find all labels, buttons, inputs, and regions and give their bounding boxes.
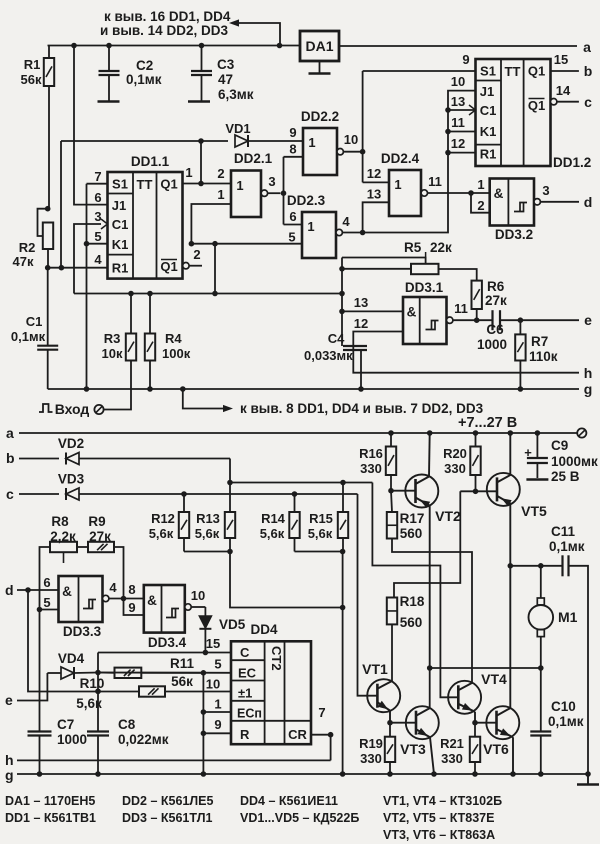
label DD3.3 amp <box>62 584 72 599</box>
svg-text:e: e <box>584 312 592 328</box>
wire R14R15 down to g <box>340 552 346 777</box>
pin 8 label <box>128 582 135 597</box>
label DD4 C <box>240 645 250 660</box>
svg-text:6: 6 <box>289 209 296 224</box>
svg-text:&: & <box>147 593 157 608</box>
svg-text:R5: R5 <box>404 240 422 255</box>
ground symbol right <box>577 774 599 785</box>
gate DD3.2 output <box>534 199 579 205</box>
label DA1 <box>305 38 333 54</box>
svg-text:5,6к: 5,6к <box>195 526 220 541</box>
wire DD2.2 pin8 <box>284 156 304 158</box>
svg-text:b: b <box>584 63 593 79</box>
svg-text:e: e <box>5 692 13 708</box>
resistor R13 <box>225 512 235 552</box>
pin 1 label <box>477 177 484 192</box>
svg-text:d: d <box>5 582 14 598</box>
pin 11 label <box>454 301 468 316</box>
wire VD4 junction down <box>95 653 101 732</box>
label VT3 <box>400 741 426 757</box>
pin 2 label <box>217 166 224 181</box>
label C6 <box>486 322 504 337</box>
svg-text:Q1: Q1 <box>528 98 545 113</box>
svg-text:12: 12 <box>451 136 465 151</box>
svg-text:R1: R1 <box>112 261 129 276</box>
resistor R2 trimmer <box>38 206 54 268</box>
wire arrow branch VDD <box>229 19 282 48</box>
label DD1.2 C1 <box>480 103 497 118</box>
svg-text:1000: 1000 <box>477 337 507 352</box>
wire R18 to VT1 collector <box>391 624 393 681</box>
label DD1.2 K1 <box>480 124 497 139</box>
svg-text:2: 2 <box>193 247 200 262</box>
label C7 <box>57 717 74 732</box>
svg-text:5: 5 <box>43 595 50 610</box>
pin 9 label <box>128 600 135 615</box>
label DD3.3 <box>63 624 102 639</box>
svg-text:DD1 – К561ТВ1: DD1 – К561ТВ1 <box>5 811 96 825</box>
pin 15 label <box>206 636 220 651</box>
label C3 value 6.3mk <box>218 87 254 102</box>
label R9 value <box>89 529 111 544</box>
pin 6 label <box>289 209 296 224</box>
pin 1 wire Q1 <box>183 183 231 185</box>
label VD4 <box>58 651 85 666</box>
svg-text:1: 1 <box>477 177 484 192</box>
wire b crossbar <box>230 480 372 486</box>
svg-text:9: 9 <box>214 717 221 732</box>
label DD4 EC <box>238 666 257 681</box>
wire pin5 vert <box>214 244 216 294</box>
label DD4 CT2 <box>269 646 284 671</box>
wire DD2.3 pin5 <box>191 241 302 247</box>
pin 11 label <box>428 174 442 189</box>
ground DA1 <box>309 61 331 74</box>
svg-text:1000: 1000 <box>57 732 87 747</box>
svg-text:8: 8 <box>128 582 135 597</box>
svg-text:8: 8 <box>289 142 296 157</box>
gate DD2.2 output <box>337 149 365 155</box>
wire C pin15 <box>98 652 231 654</box>
svg-text:7: 7 <box>94 169 101 184</box>
label R2 value 47k <box>13 254 34 269</box>
svg-text:R11: R11 <box>170 656 195 671</box>
svg-text:1000мк: 1000мк <box>551 454 598 469</box>
svg-text:1: 1 <box>394 177 401 192</box>
svg-text:b: b <box>6 450 15 466</box>
pin 12 label <box>354 316 368 331</box>
label R12 <box>149 511 175 541</box>
transistor VT2 <box>405 433 438 668</box>
svg-text:22к: 22к <box>430 240 452 255</box>
label C2 value <box>126 72 162 87</box>
wire VD5 bottom <box>203 629 209 655</box>
resistor R1 <box>44 46 54 209</box>
gate DD2.4 output <box>421 190 490 196</box>
wire e line <box>17 673 47 701</box>
svg-text:C2: C2 <box>136 58 153 73</box>
label R8 <box>51 514 69 529</box>
svg-text:5: 5 <box>94 229 101 244</box>
wire c line right <box>79 491 358 497</box>
svg-text:DD3.3: DD3.3 <box>63 624 102 639</box>
wire g line bottom <box>17 773 588 775</box>
label DD3.4 amp <box>147 593 157 608</box>
pin 5 label <box>214 657 221 672</box>
node d bottom <box>5 582 14 598</box>
svg-text:DD4 – К561ИЕ11: DD4 – К561ИЕ11 <box>240 794 338 808</box>
svg-text:a: a <box>6 425 14 441</box>
svg-text:0,022мк: 0,022мк <box>118 732 169 747</box>
wire DA1 output to a <box>339 45 577 47</box>
pin 1 label <box>185 165 192 180</box>
node c top <box>584 94 592 110</box>
label R4 value <box>162 346 191 361</box>
svg-text:g: g <box>5 767 14 783</box>
label DD1.1 S1 <box>112 177 128 192</box>
pulse symbol <box>39 404 53 412</box>
label R16 <box>359 446 383 476</box>
resistor R10 <box>139 686 165 696</box>
svg-text:10: 10 <box>191 588 205 603</box>
resistor R6 <box>472 281 482 323</box>
label VD1 <box>225 121 250 136</box>
label C10 <box>551 699 576 714</box>
label DD4 CR <box>288 727 307 742</box>
svg-text:R6: R6 <box>487 279 505 294</box>
wire DD2.1 pin1 <box>189 204 231 247</box>
label C8 <box>118 717 136 732</box>
svg-text:1: 1 <box>217 187 224 202</box>
dynamic input DD1.1 C1 <box>101 219 108 229</box>
pin 9 label DD1.2 <box>462 52 469 67</box>
svg-text:+7...27 В: +7...27 В <box>458 415 517 431</box>
label R1 <box>24 57 41 72</box>
svg-text:R3: R3 <box>104 331 121 346</box>
pin 15 label <box>554 52 568 67</box>
diode VD3 <box>66 488 79 500</box>
label VD2 <box>58 436 84 451</box>
label R21 <box>440 736 464 766</box>
wire input to R3 <box>104 361 131 410</box>
label C4 <box>328 331 345 346</box>
svg-text:560: 560 <box>400 615 423 630</box>
gate DD2.2 box <box>303 128 337 175</box>
wire R14R15 bottoms <box>295 549 346 555</box>
label VT5 <box>521 503 547 519</box>
label DD1.2 <box>553 155 591 170</box>
wire DD3.3 pin5 <box>40 609 59 611</box>
svg-text:Q1: Q1 <box>160 177 177 192</box>
wire timing line R3R4 <box>74 291 342 297</box>
svg-text:R17: R17 <box>400 511 425 526</box>
gate DD2.3 box <box>302 212 336 258</box>
svg-text:1: 1 <box>214 697 221 712</box>
label VD3 <box>58 472 85 487</box>
label DD1.1 TT <box>137 177 153 192</box>
capacitor C11 <box>563 555 569 576</box>
wire VD5 top <box>204 607 206 616</box>
svg-text:5: 5 <box>214 657 221 672</box>
svg-text:1: 1 <box>308 135 315 150</box>
svg-text:9: 9 <box>462 52 469 67</box>
label R5 <box>404 240 422 255</box>
resistor R21 <box>470 723 480 777</box>
svg-text:к выв. 8 DD1, DD4 и выв. 7 DD2: к выв. 8 DD1, DD4 и выв. 7 DD2, DD3 <box>240 401 484 416</box>
svg-text:15: 15 <box>554 52 568 67</box>
resistor R5 <box>411 264 439 274</box>
diode VD1 <box>235 135 248 147</box>
capacitor C1 <box>37 268 58 389</box>
svg-text:VD1: VD1 <box>225 121 250 136</box>
svg-text:CT2: CT2 <box>269 646 284 671</box>
wire S1 pin7 <box>87 183 108 185</box>
svg-text:R10: R10 <box>80 676 105 691</box>
svg-text:330: 330 <box>360 751 382 766</box>
motor M1 <box>529 566 554 668</box>
svg-text:27к: 27к <box>89 529 111 544</box>
svg-text:25 В: 25 В <box>551 469 580 484</box>
wire b line left <box>19 458 59 460</box>
pin 4 label <box>109 580 117 595</box>
svg-text:4: 4 <box>109 580 117 595</box>
capacitor C8 <box>87 732 109 777</box>
label DD2.3 1 <box>307 219 314 234</box>
svg-text:5,6к: 5,6к <box>308 526 333 541</box>
svg-text:d: d <box>584 194 593 210</box>
label DD1.1 K1 <box>112 237 129 252</box>
label DD1.2 TT <box>505 64 521 79</box>
label C11 value <box>549 539 585 554</box>
gate DD3.4 box <box>144 585 185 633</box>
schmitt glyph DD3.1 <box>426 321 439 330</box>
wire M1 top <box>508 563 563 569</box>
flip-flop DD1.2 box <box>476 59 551 166</box>
wire DD3.4 pin9 tap <box>124 599 144 616</box>
gate DD2.1 output <box>261 190 280 196</box>
gate DD2.3 output <box>336 229 365 235</box>
label VT4 <box>481 671 507 687</box>
pin 3 label <box>268 174 275 189</box>
label R14 <box>260 511 286 541</box>
svg-text:Q1: Q1 <box>160 259 177 274</box>
pin 13 label <box>354 295 368 310</box>
label DD2.4 1 <box>394 177 401 192</box>
diode VD4 <box>61 667 74 679</box>
wire rail to J1 <box>71 43 107 205</box>
wire ECn pin1 <box>203 711 231 713</box>
svg-text:5,6к: 5,6к <box>260 526 285 541</box>
pin 4 label <box>342 214 350 229</box>
svg-text:DD3.1: DD3.1 <box>405 280 444 295</box>
gate DD2.1 box <box>231 171 261 218</box>
svg-text:+: + <box>524 445 532 460</box>
resistor R9 <box>88 542 114 552</box>
gate DD3.1 box <box>403 297 447 344</box>
svg-text:&: & <box>494 186 504 201</box>
svg-text:R7: R7 <box>531 334 548 349</box>
wire pin12 <box>445 150 475 156</box>
svg-text:R8: R8 <box>51 514 69 529</box>
label M1 <box>558 609 578 625</box>
svg-text:14: 14 <box>556 83 571 98</box>
label R19 <box>359 736 383 766</box>
wire VT6 base node <box>472 720 496 726</box>
label DD2.1 <box>234 151 273 166</box>
svg-text:330: 330 <box>360 461 382 476</box>
svg-text:4: 4 <box>94 252 102 267</box>
svg-text:100к: 100к <box>162 346 191 361</box>
flip-flop DD1.1 box <box>108 172 183 279</box>
svg-text:±1: ±1 <box>238 686 252 701</box>
resistor R11 <box>115 668 142 678</box>
wire DD3.1 pin13 <box>342 310 403 312</box>
label DD1.1 R1 <box>112 261 129 276</box>
pin 6 label <box>43 575 50 590</box>
svg-text:R18: R18 <box>400 594 425 609</box>
svg-text:R2: R2 <box>19 240 36 255</box>
label VD5 <box>219 617 246 632</box>
wire VD4 anode <box>47 672 61 674</box>
wire DD3.1 pin12 to h <box>353 332 579 373</box>
wire VD4 cathode <box>74 672 98 675</box>
label DD4 <box>250 622 277 637</box>
svg-text:h: h <box>5 752 14 768</box>
diode VD2 <box>66 453 79 465</box>
svg-text:2: 2 <box>217 166 224 181</box>
pin 3 label <box>542 183 549 198</box>
pin 6 label <box>94 190 101 205</box>
node e bottom <box>5 692 13 708</box>
svg-text:Q1: Q1 <box>528 64 545 79</box>
svg-text:9: 9 <box>128 600 135 615</box>
pin 14 label <box>556 83 571 98</box>
capacitor C6 <box>493 310 580 330</box>
svg-text:R15: R15 <box>309 511 333 526</box>
svg-text:13: 13 <box>451 94 465 109</box>
svg-text:и выв. 14 DD2, DD3: и выв. 14 DD2, DD3 <box>100 23 228 38</box>
label DD1.2 R1 <box>480 147 497 162</box>
label DD1.2 Q1 <box>528 64 545 79</box>
svg-text:12: 12 <box>367 166 381 181</box>
text to pins 16 DD1 DD4 <box>104 9 231 24</box>
label VT1 <box>362 661 388 677</box>
label DD2.4 <box>381 151 420 166</box>
svg-text:VT5: VT5 <box>521 503 547 519</box>
wire R5 right to R6 <box>439 269 477 281</box>
svg-text:C9: C9 <box>551 438 568 453</box>
svg-text:&: & <box>407 305 417 320</box>
svg-text:1: 1 <box>185 165 192 180</box>
svg-text:0,1мк: 0,1мк <box>548 714 584 729</box>
wire R5 top link <box>342 258 426 265</box>
svg-text:DD2 – К561ЛЕ5: DD2 – К561ЛЕ5 <box>122 794 213 808</box>
label C6 value <box>477 337 507 352</box>
svg-text:C6: C6 <box>486 322 504 337</box>
label DD1.2 J1 <box>480 84 494 99</box>
svg-text:0,1мк: 0,1мк <box>11 329 46 344</box>
svg-text:C11: C11 <box>551 524 576 539</box>
svg-text:15: 15 <box>206 636 220 651</box>
resistor R4 <box>145 294 155 392</box>
svg-text:6,3мк: 6,3мк <box>218 87 254 102</box>
svg-text:DD1.2: DD1.2 <box>553 155 591 170</box>
svg-text:56к: 56к <box>21 72 42 87</box>
label R1 value 56k <box>21 72 42 87</box>
wire R11 right <box>141 672 203 674</box>
wire VD1 left corner down <box>59 141 65 271</box>
transistor VT4 <box>448 681 481 723</box>
wire VD1 cathode to pin9 DD2.2 <box>248 140 303 142</box>
label DD1.1 C1 <box>112 217 129 232</box>
capacitor C4 <box>343 346 367 392</box>
svg-text:R1: R1 <box>24 57 41 72</box>
svg-text:560: 560 <box>400 526 423 541</box>
wire c line left <box>19 493 59 495</box>
label DD2.2 <box>301 109 339 124</box>
svg-text:0,033мк: 0,033мк <box>304 348 353 363</box>
wire R8 left <box>37 547 50 612</box>
svg-text:330: 330 <box>444 461 466 476</box>
wire DD2.4 pin12 <box>363 181 389 183</box>
wire h line bottom <box>17 759 331 761</box>
diode VD5 <box>199 616 211 629</box>
wire DD2.1 out junction <box>281 157 287 225</box>
label R4 <box>165 331 182 346</box>
label R11 <box>170 656 195 671</box>
svg-text:R16: R16 <box>359 446 383 461</box>
pin 5 label <box>43 595 50 610</box>
node g top <box>584 381 593 397</box>
svg-text:0,1мк: 0,1мк <box>549 539 585 554</box>
label DD3.1 amp <box>407 305 417 320</box>
svg-text:VT2, VT5 – КТ837Е: VT2, VT5 – КТ837Е <box>383 811 494 825</box>
pin 1 label <box>214 697 221 712</box>
transistor VT3 <box>406 668 439 777</box>
node h top <box>584 365 593 381</box>
svg-text:VD2: VD2 <box>58 436 84 451</box>
svg-text:DD3.4: DD3.4 <box>148 635 187 650</box>
wire R9 right <box>114 547 126 601</box>
counter DD4 box <box>231 641 311 744</box>
svg-text:VT3: VT3 <box>400 741 426 757</box>
gate DD3.4 output <box>185 604 206 610</box>
resistor R18 <box>387 598 397 625</box>
svg-text:10: 10 <box>206 677 220 692</box>
svg-text:ECп: ECп <box>237 707 262 721</box>
svg-text:c: c <box>6 486 14 502</box>
svg-text:J1: J1 <box>480 84 494 99</box>
svg-text:R14: R14 <box>261 511 286 526</box>
label C9 plus <box>524 445 532 460</box>
label R6 <box>487 279 505 294</box>
svg-text:VT3, VT6 – КТ863А: VT3, VT6 – КТ863А <box>383 828 495 842</box>
label R3 <box>104 331 121 346</box>
svg-text:1: 1 <box>236 178 243 193</box>
svg-text:R20: R20 <box>443 446 467 461</box>
label C3 <box>217 57 235 72</box>
label VT2 <box>435 508 461 524</box>
pin 5 label <box>94 229 101 244</box>
label R15 <box>308 511 333 541</box>
resistor R8 <box>50 542 77 563</box>
node a bottom <box>6 425 14 441</box>
label C1 <box>26 314 43 329</box>
svg-text:a: a <box>583 39 591 55</box>
label R7 <box>531 334 548 349</box>
wire DD2.4 pin13 tap <box>363 202 389 232</box>
wire to DD2.3 pin6 <box>284 224 303 226</box>
